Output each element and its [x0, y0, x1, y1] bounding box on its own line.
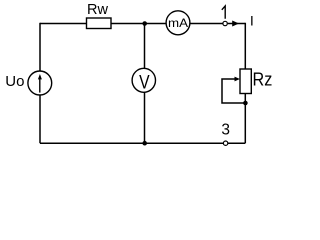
voltmeter V: [132, 68, 155, 92]
resistor Rw: [87, 18, 112, 29]
wire top-left horizontal: [40, 23, 87, 25]
source Uo: [28, 71, 52, 95]
source arrow: [39, 78, 41, 93]
svg-text:mA: mA: [168, 16, 189, 30]
terminal node 3: [223, 141, 227, 145]
wire right rail down to Rz: [244, 23, 246, 69]
wire terminal 1 to top-right corner: [228, 23, 246, 25]
svg-text:V: V: [139, 72, 150, 93]
current arrow I: [232, 21, 239, 27]
ammeter mA: [166, 11, 190, 35]
svg-text:Rz: Rz: [253, 69, 273, 90]
svg-text:Uo: Uo: [5, 73, 24, 90]
wire junction down to voltmeter: [144, 24, 146, 69]
svg-text:I: I: [250, 14, 254, 30]
wire mA to terminal 1: [190, 23, 223, 25]
label 1: [222, 6, 225, 19]
terminal node 1: [223, 21, 227, 25]
svg-text:Rw: Rw: [87, 2, 108, 18]
resistor Rz (rheostat): [240, 69, 251, 94]
svg-text:3: 3: [221, 121, 230, 138]
left rail bottom segment: [39, 95, 41, 143]
wiper return wire: [222, 79, 245, 103]
left rail top segment: [39, 23, 41, 71]
bottom rail: [40, 142, 245, 144]
node junction below Rw: [142, 21, 147, 26]
wiper arrow of Rz: [235, 77, 240, 82]
wire Rw to mA: [111, 23, 166, 25]
node junction bottom centre: [142, 141, 147, 146]
wire Rz bottom to bottom rail: [244, 94, 246, 144]
wire voltmeter down to bottom junction: [144, 92, 146, 143]
node junction below Rz: [243, 101, 248, 106]
